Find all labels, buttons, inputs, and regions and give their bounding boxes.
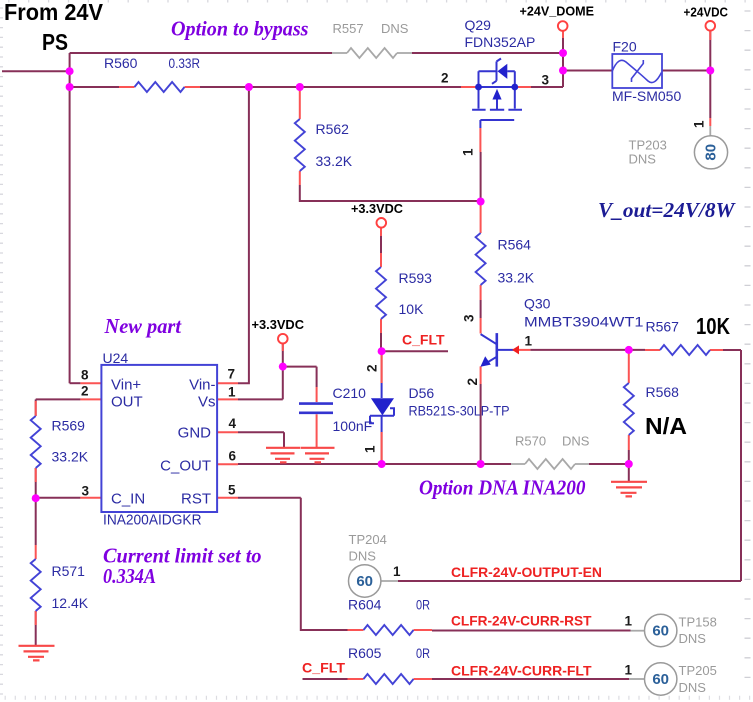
wire: riser x=248.9 from main to U24 pin7 (238, 87, 249, 383)
wire: main horizontal y=87 from left bus to R560 (70, 86, 119, 88)
wire: U24 pin1 to +3.3VDC node (238, 343, 283, 400)
svg-text:0R: 0R (416, 645, 430, 661)
svg-text:MMBT3904WT1: MMBT3904WT1 (524, 314, 644, 330)
svg-text:1: 1 (393, 564, 401, 579)
node: rail / R568 / ground (625, 460, 633, 468)
svg-text:33.2K: 33.2K (498, 270, 535, 286)
wire lead: C210 (316, 387, 318, 447)
wire: U24 pin4 to ground (238, 432, 284, 447)
svg-text:R557: R557 (333, 21, 364, 36)
svg-text:1: 1 (363, 445, 378, 453)
svg-text:R571: R571 (52, 563, 86, 579)
wire: R568 node to ground (628, 464, 630, 482)
wire lead: D56 top/bottom (381, 355, 383, 460)
wire lead: R564 (480, 204, 482, 301)
svg-text:R567: R567 (646, 319, 680, 335)
wire: R568 bottom to rail node (628, 450, 630, 464)
wire: C_OUT rail from U24 pin6 (238, 463, 511, 465)
svg-text:GND: GND (178, 425, 212, 442)
wire: U24 pin2 to R569 top (36, 399, 81, 416)
svg-text:Option DNA INA200: Option DNA INA200 (419, 476, 586, 500)
resistor R562 (295, 119, 305, 171)
svg-text:1: 1 (625, 663, 633, 678)
svg-text:0.334A: 0.334A (103, 564, 156, 588)
svg-text:TP158: TP158 (679, 615, 717, 630)
op-amp U24 body (INA200) (101, 365, 217, 512)
wire: D56 top lead from node (381, 351, 383, 383)
resistor R569 (31, 416, 41, 468)
svg-text:60: 60 (652, 671, 669, 688)
svg-text:CLFR-24V-OUTPUT-EN: CLFR-24V-OUTPUT-EN (451, 564, 602, 580)
wire lead: R571 (35, 545, 37, 625)
wire: R605 right to TP205 (432, 678, 629, 680)
resistor R564 (476, 233, 486, 285)
resistor R604 (364, 625, 414, 635)
wire: net CLFR-24V-OUTPUT-EN horizontal (398, 580, 741, 582)
svg-text:10K: 10K (399, 301, 425, 317)
wire lead: R560 (119, 86, 200, 88)
svg-text:TP205: TP205 (679, 663, 717, 678)
svg-text:CLFR-24V-CURR-FLT: CLFR-24V-CURR-FLT (451, 663, 592, 679)
svg-text:+24V_DOME: +24V_DOME (520, 4, 595, 19)
wire: bypass horizontal y=53 (right part to node +24V_DOME) (412, 52, 563, 54)
wire lead: TP203 gray (709, 126, 711, 136)
svg-text:2: 2 (81, 384, 89, 399)
svg-text:C_OUT: C_OUT (160, 458, 211, 475)
svg-text:+24VDC: +24VDC (684, 5, 729, 20)
wire: Q29 gate down to node (480, 152, 482, 201)
svg-text:DNS: DNS (562, 434, 590, 449)
wire: U24 pin3 from node (36, 497, 81, 499)
svg-text:R564: R564 (498, 237, 532, 253)
wire lead: R568 (628, 353, 630, 450)
svg-text:MF-SM050: MF-SM050 (612, 88, 681, 104)
svg-text:PS: PS (42, 29, 68, 55)
resistor R605 (364, 674, 414, 684)
svg-text:D56: D56 (409, 385, 435, 401)
svg-text:C_FLT: C_FLT (302, 660, 345, 676)
wire: C_FLT stub left of R605 (303, 678, 348, 680)
wire: bypass horizontal y=53 (left part) (70, 52, 332, 54)
node: rail / Q30 emitter (477, 460, 485, 468)
resistor R593 (376, 267, 386, 319)
wire: +3.3VDC top to R593 (380, 236, 382, 253)
svg-text:DNS: DNS (679, 631, 707, 646)
wire lead: Q29 gate (479, 128, 481, 152)
wire: R562 bottom elbow to gate node (300, 185, 481, 201)
wire lead: Q30 base (518, 349, 530, 351)
svg-text:TP204: TP204 (349, 532, 387, 547)
wire: C_IN node to R571 top (35, 498, 37, 545)
wire: rail between R570 and R568 node (589, 463, 629, 465)
svg-text:100nF: 100nF (333, 418, 373, 434)
wire: R564 bottom to Q30 collector (480, 300, 482, 318)
svg-text:1: 1 (228, 385, 236, 400)
wire lead: Q29 source/drain (461, 86, 531, 88)
svg-text:R570: R570 (515, 434, 546, 449)
svg-text:7: 7 (228, 367, 236, 382)
transistor Q29 P-MOSFET symbol (472, 59, 522, 129)
svg-text:1: 1 (625, 614, 633, 629)
node: +3.3VDC / C210 / pin1 (279, 363, 287, 371)
svg-text:1: 1 (525, 334, 533, 349)
diode D56 leads (blue part) (381, 383, 383, 432)
svg-text:New part: New part (104, 314, 183, 338)
svg-text:+3.3VDC: +3.3VDC (252, 317, 305, 332)
svg-text:3: 3 (462, 314, 477, 322)
svg-text:N/A: N/A (645, 413, 687, 439)
svg-text:60: 60 (356, 573, 373, 590)
svg-text:33.2K: 33.2K (316, 153, 353, 169)
svg-text:Q30: Q30 (524, 296, 551, 312)
svg-text:CLFR-24V-CURR-RST: CLFR-24V-CURR-RST (451, 613, 592, 629)
wire lead: R593 (380, 228, 382, 334)
svg-text:0R: 0R (416, 597, 430, 613)
svg-text:R604: R604 (348, 597, 382, 613)
node: main / pin7 riser (245, 83, 253, 91)
svg-text:33.2K: 33.2K (52, 449, 89, 465)
svg-text:RST: RST (181, 491, 211, 508)
node: +24VDC / F20 (706, 67, 714, 75)
svg-text:R569: R569 (52, 418, 86, 434)
wire: right edge riser x=741 (740, 350, 742, 581)
wire lead: R569 (35, 401, 37, 482)
gray DNS leads (332, 53, 710, 679)
wire: D56 bottom to rail (381, 432, 383, 464)
wire lead: TP204 gray (381, 580, 398, 582)
svg-text:80: 80 (703, 144, 720, 161)
transistor Q29 body-diode triangle (498, 64, 508, 79)
svg-text:C_IN: C_IN (111, 491, 145, 508)
wire: R569 bottom to C_IN node (35, 468, 37, 498)
ground (below C210) (301, 448, 335, 463)
wire: +24VDC vertical to TP203 (709, 31, 711, 118)
transistor Q30 base red pin arrow (512, 345, 519, 354)
svg-text:R605: R605 (348, 645, 382, 661)
resistor R560 (135, 82, 185, 92)
fuse F20 thermistor curve (612, 60, 661, 82)
node: R569 / R571 / C_IN (32, 494, 40, 502)
svg-text:6: 6 (229, 449, 237, 464)
power +24V_DOME circle (558, 21, 568, 31)
svg-text:R560: R560 (104, 55, 138, 71)
svg-text:V_out=24V/8W: V_out=24V/8W (598, 198, 736, 222)
resistor R568 (624, 383, 634, 435)
transistor Q29 source/drain terminals (475, 84, 482, 91)
wire lead: R605 (348, 678, 433, 680)
diode D56 (RB521S) triangle (371, 398, 394, 415)
test point TP203 circle (694, 136, 727, 169)
border tick marks (decorative) (9, 0, 745, 3)
wire: Q29 drain to riser (531, 86, 563, 88)
svg-text:U24: U24 (103, 350, 129, 366)
fuse F20 box (612, 54, 662, 88)
wire: U24 pin8 from left bus (70, 382, 81, 384)
node: rail / D56 (378, 460, 386, 468)
wire lead: TP158 gray (631, 630, 645, 632)
svg-text:1: 1 (461, 148, 476, 156)
wire lead: R557 gray (332, 52, 412, 54)
wire: R567 right to edge riser (723, 349, 741, 351)
svg-text:DNS: DNS (629, 152, 657, 167)
wire: R604 right to TP158 (432, 630, 631, 632)
svg-text:Option to bypass: Option to bypass (171, 17, 309, 41)
capacitor C210 plates (299, 404, 333, 413)
wire: F20 right (662, 70, 710, 72)
wire lead: Q30 collector (480, 318, 482, 334)
svg-text:DNS: DNS (381, 21, 409, 36)
wire: Q30 emitter down to rail (480, 384, 482, 464)
svg-text:Vin+: Vin+ (111, 377, 141, 394)
wire lead: R570 gray (511, 463, 589, 465)
transistor Q30 emitter arrowhead (480, 356, 490, 367)
svg-text:R562: R562 (316, 121, 350, 137)
wire lead: U24 pins left (80, 383, 101, 498)
node: left bus / entry (66, 67, 74, 75)
wire lead: power pins (283, 31, 711, 351)
svg-text:RB521S-30LP-TP: RB521S-30LP-TP (409, 403, 510, 419)
resistor R570 (DNS, gray) (525, 459, 575, 469)
test point TP158 circle (645, 614, 677, 646)
svg-text:3: 3 (542, 73, 550, 88)
wire: F20 left (563, 70, 612, 72)
wire lead: Q30 emitter (480, 366, 482, 384)
ground (below R568) (611, 482, 647, 497)
transistor Q30 NPN symbol (481, 333, 514, 367)
node: Q30 base / R567 / R568 (625, 346, 633, 354)
wire lead: TP203 (709, 118, 711, 126)
svg-text:C_FLT: C_FLT (402, 332, 445, 348)
svg-text:From 24V: From 24V (4, 0, 104, 25)
svg-text:R568: R568 (646, 384, 680, 400)
svg-text:+3.3VDC: +3.3VDC (351, 201, 404, 216)
svg-text:0.33R: 0.33R (169, 55, 201, 71)
test point TP204 circle (349, 565, 381, 597)
wire: left vertical bus x=69.6 (69, 53, 71, 383)
node: left bus / main (66, 83, 74, 91)
power +24VDC circle (706, 21, 716, 31)
node: C_FLT / R593 / D56 (378, 347, 386, 355)
svg-text:Vs: Vs (198, 394, 216, 411)
node: dome / bypass (559, 49, 567, 57)
svg-text:2: 2 (465, 378, 480, 386)
svg-text:4: 4 (229, 416, 237, 431)
wire: main horizontal y=87 R560 to Q29 source (200, 86, 461, 88)
svg-text:60: 60 (652, 623, 669, 640)
wire lead: R567 (645, 349, 723, 351)
svg-text:TP203: TP203 (629, 138, 667, 153)
power +3.3VDC circle (top) (377, 218, 387, 228)
svg-text:F20: F20 (613, 39, 637, 55)
svg-text:Q29: Q29 (465, 17, 492, 33)
wire: R571 bottom to ground (35, 611, 37, 646)
svg-text:12.4K: 12.4K (52, 595, 89, 611)
wire: entry from left at y=71 (2, 70, 70, 72)
svg-text:C210: C210 (333, 385, 367, 401)
svg-text:2: 2 (441, 71, 449, 86)
svg-text:5: 5 (228, 483, 236, 498)
wire: C_FLT stub at node (382, 350, 448, 352)
test point TP205 circle (645, 663, 677, 695)
svg-text:INA200AIDGKR: INA200AIDGKR (103, 512, 202, 529)
resistor R557 (DNS, gray) (347, 48, 397, 58)
wire: +3.3VDC node to C210 top (283, 367, 317, 387)
svg-text:DNS: DNS (679, 680, 707, 695)
wire lead: U24 pins right (217, 383, 238, 498)
svg-text:8: 8 (81, 368, 89, 383)
wire: U24 pin5 path down and right to R604 (238, 498, 348, 630)
resistor R571 (31, 559, 41, 611)
power +3.3VDC circle (left) (278, 334, 288, 344)
transistor Q29 substrate arrow (492, 89, 501, 100)
node: gate / R562 / R564 (477, 198, 485, 206)
node: main / R562 (296, 83, 304, 91)
svg-text:OUT: OUT (111, 394, 143, 411)
wire: Q30 base wire to R567 node (530, 349, 645, 351)
svg-text:R593: R593 (399, 270, 433, 286)
wire lead: TP205 gray (629, 678, 645, 680)
svg-text:2: 2 (365, 364, 380, 372)
svg-text:1: 1 (692, 120, 707, 128)
svg-text:Vin-: Vin- (189, 377, 215, 394)
svg-text:10K: 10K (696, 313, 730, 339)
wire lead: R562 (299, 89, 301, 185)
svg-text:FDN352AP: FDN352AP (465, 34, 536, 50)
ground (below R571) (19, 646, 55, 661)
svg-text:3: 3 (82, 483, 90, 498)
wire: riser x=563 dome node (562, 31, 564, 87)
ground (below U24 pin4) (266, 448, 300, 463)
wire lead: R604 (348, 629, 433, 631)
svg-text:DNS: DNS (349, 549, 377, 564)
wire: R593 bottom to C_FLT node (380, 333, 382, 351)
node: dome / F20 (559, 67, 567, 75)
diode D56 cathode bar with schottky hooks (370, 408, 394, 423)
resistor R567 (660, 345, 710, 355)
